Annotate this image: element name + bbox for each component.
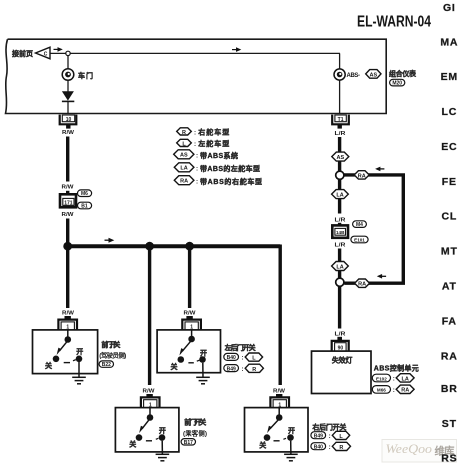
label 关	[45, 361, 52, 370]
svg-text:带ABS的右舵车型: 带ABS的右舵车型	[200, 177, 262, 186]
wire stub	[146, 394, 152, 399]
rear left door switch (box)	[157, 330, 220, 373]
combination meter component box M20 (band with torn left edge)	[6, 39, 387, 113]
legend tag RA	[174, 176, 198, 186]
legend label 带ABS的左舵车型	[200, 164, 260, 173]
svg-text:R: R	[339, 445, 343, 451]
wire stub	[65, 316, 71, 322]
switch contacts inside B17	[136, 408, 166, 441]
svg-text:B40: B40	[227, 355, 236, 361]
title EL-WARN-04	[357, 14, 431, 31]
label R/W below connector 10	[62, 130, 75, 136]
connector id E101	[351, 236, 368, 243]
rear right door switch (box)	[245, 408, 309, 452]
switch contacts inside rear left switch	[178, 330, 206, 363]
connector id M6	[78, 190, 92, 197]
svg-text:AS: AS	[336, 155, 344, 161]
wire: drop to driver front door switch	[66, 248, 69, 308]
connector 10 (meter, pin 10)	[60, 115, 77, 129]
svg-text:C: C	[44, 52, 48, 58]
pin 1 of rear right door switch	[270, 397, 289, 408]
svg-text:L/R: L/R	[335, 243, 346, 249]
label 开	[200, 350, 207, 358]
connector id B49 (rear right)	[311, 432, 331, 440]
tag L	[332, 431, 349, 440]
svg-text:车门: 车门	[78, 71, 93, 80]
svg-text:R/W: R/W	[143, 389, 156, 395]
page section letter RS	[441, 453, 457, 465]
svg-text:右后门开关: 右后门开关	[311, 423, 346, 432]
tag RA on lower loop	[355, 279, 370, 288]
watermark WeeQoo	[382, 440, 457, 463]
svg-text:CL: CL	[441, 211, 457, 223]
wire: drop from junction to DOOR lamp	[67, 53, 69, 69]
label 开	[159, 427, 166, 435]
svg-text:E102: E102	[376, 376, 387, 381]
label 开	[288, 427, 295, 435]
tag R (RHD)	[245, 364, 263, 373]
label (驾驶员侧)	[99, 351, 126, 360]
svg-text:LA: LA	[336, 193, 343, 199]
connector id M20	[390, 79, 405, 86]
svg-text:B17: B17	[184, 440, 193, 446]
connector id B17	[181, 439, 195, 446]
connector T1 (meter, pin T1)	[332, 115, 349, 129]
connector id B40	[224, 353, 244, 361]
svg-text:关: 关	[259, 441, 266, 450]
tag L (LHD)	[245, 353, 262, 362]
page section index letters	[440, 2, 458, 430]
svg-text:GI: GI	[443, 2, 456, 14]
label L/R below 14B	[335, 243, 346, 249]
wire stub into connector	[66, 191, 69, 195]
svg-text:接前页: 接前页	[12, 49, 33, 58]
switch contacts inside B22	[53, 330, 83, 363]
tag RA on upper loop	[354, 171, 369, 180]
ground G2	[196, 363, 210, 384]
svg-text:前门开关: 前门开关	[184, 417, 206, 426]
wire: ABS lamp to connector T1	[339, 80, 341, 114]
svg-text:RA: RA	[358, 282, 366, 288]
svg-text:关: 关	[129, 440, 136, 449]
wire	[338, 271, 341, 279]
wire L/R upper	[338, 137, 341, 152]
wire: DOOR lamp to diode	[67, 80, 69, 91]
svg-text:带ABS系统: 带ABS系统	[200, 151, 238, 160]
ground G3	[156, 441, 170, 461]
svg-text:ABS-: ABS-	[347, 73, 361, 79]
label R/W	[273, 389, 286, 395]
wire stub	[186, 316, 192, 322]
connector id M66	[372, 386, 395, 394]
svg-text:L/R: L/R	[335, 218, 346, 224]
svg-text:(驾驶员侧): (驾驶员侧)	[99, 351, 126, 360]
wire stub	[338, 223, 341, 226]
wire	[338, 161, 341, 171]
lamp: ABS warning bulb	[334, 69, 345, 80]
connector id B22	[99, 361, 113, 368]
label ABS-	[347, 73, 361, 79]
svg-text:开: 开	[159, 427, 166, 435]
svg-text:B1: B1	[81, 204, 88, 210]
front door switch driver side B22 (box)	[33, 330, 98, 374]
legend label 右舵车型	[197, 128, 229, 137]
pin 1 of passenger door switch	[141, 397, 160, 408]
svg-text:R/W: R/W	[62, 310, 75, 316]
label ABS 控制单元	[374, 364, 419, 373]
svg-text:LC: LC	[441, 106, 457, 118]
svg-text::: :	[196, 153, 198, 160]
connector id B40 (rear right)	[311, 443, 331, 451]
node: bus junction B	[145, 242, 154, 251]
svg-text:R/W: R/W	[62, 130, 75, 136]
svg-text::: :	[393, 376, 395, 383]
svg-text:WeeQoo: WeeQoo	[386, 442, 433, 456]
wire stub	[276, 394, 282, 399]
wire: bus corner down to rear right door switch	[279, 245, 282, 386]
svg-text:R: R	[182, 130, 186, 136]
svg-text:14B: 14B	[336, 230, 345, 235]
legend tag AS	[174, 150, 198, 160]
flow arrow on distribution bus	[105, 238, 115, 243]
svg-text::: :	[242, 366, 244, 373]
label 前门开关 (passenger)	[184, 417, 206, 426]
label 关	[259, 441, 266, 450]
front door switch passenger side B17 (box)	[115, 408, 178, 452]
diode D1	[62, 91, 74, 101]
svg-text:ST: ST	[442, 418, 457, 430]
wire: main feed inside meter, y=53.4	[50, 52, 340, 54]
svg-text:RA: RA	[180, 179, 188, 185]
svg-text:左后门开关: 左后门开关	[224, 343, 256, 352]
svg-text:AS: AS	[369, 72, 377, 78]
svg-text::: :	[242, 355, 244, 362]
svg-text::: :	[329, 433, 331, 440]
label 车门	[78, 71, 93, 80]
svg-text:M4: M4	[356, 222, 363, 228]
svg-text:T1: T1	[338, 117, 344, 123]
switch contacts inside rear right switch	[264, 408, 294, 441]
flow arrow right of page connector	[54, 47, 63, 52]
svg-text:B22: B22	[102, 362, 111, 368]
label 失效灯	[332, 356, 353, 365]
svg-text:AT: AT	[442, 281, 457, 293]
wire	[338, 199, 341, 214]
svg-text:LA: LA	[336, 264, 343, 270]
wire: corner drop to ABS lamp	[339, 53, 341, 69]
node: lower loop junction (open)	[336, 278, 344, 286]
lamp: DOOR warning bulb	[62, 69, 74, 81]
flow arrow on upper loop	[375, 167, 384, 172]
wire: drop to passenger front door switch	[148, 248, 151, 385]
svg-text:开: 开	[200, 350, 207, 358]
svg-text:前门开关: 前门开关	[101, 340, 120, 349]
svg-text:10: 10	[66, 117, 72, 123]
pin 1 of driver door switch	[58, 320, 77, 331]
wire R/W left column lower	[66, 219, 69, 247]
svg-text:B40: B40	[314, 444, 323, 450]
svg-text:M6: M6	[81, 191, 88, 197]
svg-text:M66: M66	[377, 388, 386, 393]
label R/W	[143, 389, 156, 395]
node: junction in meter	[66, 51, 70, 55]
svg-text:EC: EC	[441, 141, 457, 153]
label 左后门开关	[224, 343, 256, 352]
connector id E102	[372, 374, 395, 382]
tag LA (ABS unit)	[396, 374, 414, 383]
svg-text:右舵车型: 右舵车型	[197, 128, 229, 137]
label 开	[76, 348, 83, 356]
svg-text:M20: M20	[392, 81, 402, 87]
svg-text:开: 开	[76, 348, 83, 356]
svg-text:BR: BR	[441, 383, 458, 395]
svg-text:RA: RA	[358, 173, 366, 179]
svg-text:R/W: R/W	[184, 310, 197, 316]
tag AS (with ABS)	[366, 70, 381, 79]
tag RA (ABS unit)	[396, 385, 414, 394]
svg-text:EL-WARN-04: EL-WARN-04	[357, 14, 431, 31]
node: bus junction A	[63, 242, 72, 251]
inline connector 14B (M4/E101)	[332, 225, 348, 237]
legend label 带ABS系统	[200, 151, 238, 160]
svg-text:R/W: R/W	[62, 185, 75, 191]
svg-text:L/R: L/R	[335, 131, 346, 137]
svg-text:MT: MT	[441, 246, 458, 258]
label 组合仪表	[389, 69, 417, 78]
flow arrow on lower loop	[377, 274, 386, 279]
svg-text::: :	[194, 129, 196, 136]
svg-text:MA: MA	[440, 37, 458, 49]
wire: bypass loop upper	[344, 175, 403, 283]
wire R/W left column upper	[66, 137, 69, 182]
svg-text:左舵车型: 左舵车型	[197, 139, 229, 148]
tag LA lower	[332, 262, 349, 271]
svg-text:E101: E101	[354, 238, 365, 243]
page connector C (to previous page)	[36, 47, 51, 59]
tag R	[332, 442, 350, 451]
label L/R below T1	[335, 131, 346, 137]
svg-text:EM: EM	[441, 71, 458, 83]
ground G1	[72, 362, 86, 384]
tag LA upper	[332, 190, 349, 199]
svg-text:RA: RA	[401, 388, 409, 394]
label L/R above 14B	[335, 218, 346, 224]
ground G4	[284, 441, 298, 461]
svg-text:LA: LA	[402, 376, 409, 382]
flow arrow on main feed	[232, 47, 241, 52]
pin 90 of ABS control unit	[332, 341, 349, 352]
label 关	[171, 362, 178, 371]
svg-text:关: 关	[45, 361, 52, 370]
svg-text:开: 开	[288, 427, 295, 435]
wire: distribution bus	[68, 244, 281, 248]
legend tag L	[177, 139, 196, 148]
svg-text:171: 171	[64, 200, 73, 206]
svg-text::: :	[329, 444, 331, 451]
svg-text:B49: B49	[227, 366, 236, 372]
svg-text:R/W: R/W	[273, 389, 286, 395]
svg-text::: :	[393, 387, 395, 394]
svg-text:RA: RA	[441, 351, 458, 363]
label (乘客侧)	[183, 429, 207, 438]
svg-text:组合仪表: 组合仪表	[389, 69, 417, 78]
label 关	[129, 440, 136, 449]
tag AS on wire	[332, 152, 349, 161]
wire stub	[337, 337, 342, 341]
svg-text:(乘客侧): (乘客侧)	[183, 429, 207, 438]
svg-text:AS: AS	[180, 153, 188, 159]
svg-text:关: 关	[171, 362, 178, 371]
label R/W	[62, 310, 75, 316]
label R/W above connector M6/B1	[62, 185, 75, 191]
wire: diode to connector 10	[67, 101, 69, 114]
svg-text:L/R: L/R	[335, 332, 346, 338]
svg-text:失效灯: 失效灯	[332, 356, 353, 365]
inline connector 171 (M6/B1)	[60, 194, 76, 207]
wire	[338, 249, 341, 263]
svg-text:B49: B49	[314, 433, 323, 439]
svg-text:FE: FE	[442, 176, 457, 188]
svg-text:LA: LA	[180, 166, 187, 172]
svg-text:R/W: R/W	[62, 212, 75, 218]
node: upper loop junction (open)	[336, 171, 344, 179]
wire: drop to rear left door switch	[188, 248, 191, 308]
svg-text:ABS控制单元: ABS控制单元	[374, 364, 419, 373]
svg-text::: :	[196, 166, 198, 173]
ABS control unit (box)	[312, 351, 372, 393]
legend label 左舵车型	[197, 139, 229, 148]
pin 1 of rear left door switch	[182, 320, 201, 331]
svg-text:带ABS的左舵车型: 带ABS的左舵车型	[200, 164, 260, 173]
label 接前页	[12, 49, 33, 58]
svg-text:RS: RS	[441, 453, 457, 465]
svg-text::: :	[194, 141, 196, 148]
svg-text:FA: FA	[442, 316, 457, 328]
svg-text:R: R	[252, 367, 256, 373]
label 前门开关 (driver)	[101, 340, 120, 349]
svg-text::: :	[196, 179, 198, 186]
connector id M4	[353, 221, 367, 228]
label R/W	[184, 310, 197, 316]
label L/R above pin 90	[335, 332, 346, 338]
wire L/R to ABS unit	[338, 286, 341, 328]
node: bus junction C	[185, 242, 194, 251]
legend label 带ABS的右舵车型	[200, 177, 262, 186]
connector id B1	[78, 202, 92, 209]
label 右后门开关	[311, 423, 346, 432]
label R/W below connector	[62, 212, 75, 218]
legend tag R	[177, 128, 196, 137]
connector id B49	[224, 365, 244, 373]
legend tag LA	[174, 163, 198, 173]
wire	[338, 179, 341, 190]
